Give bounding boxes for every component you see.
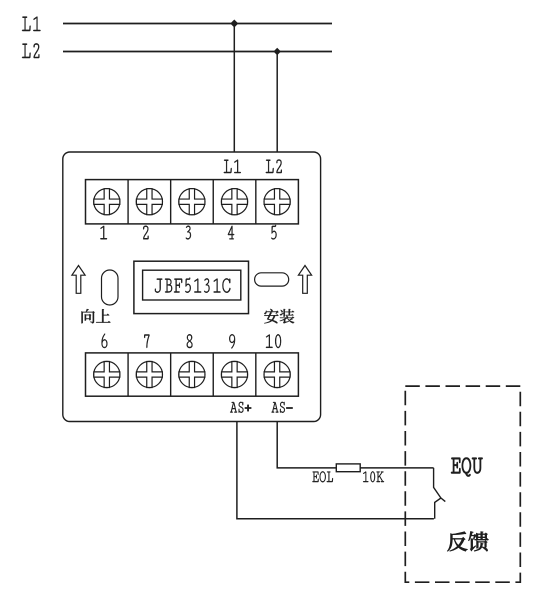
screw terminal 10 bbox=[264, 361, 290, 387]
junction on L1 bbox=[231, 20, 238, 27]
terminal number 3 bbox=[186, 226, 191, 240]
resistor EOL 10K bbox=[336, 464, 360, 472]
wire L1 drop to terminal 4 bbox=[233, 24, 235, 153]
terminal number 4 bbox=[228, 226, 234, 239]
net label L2 bbox=[22, 43, 39, 58]
screw terminal 5 bbox=[264, 189, 290, 215]
equipment EQU dashed box bbox=[405, 386, 520, 582]
label AS- at terminal 10 bbox=[272, 402, 293, 413]
terminal divider top 3 bbox=[212, 180, 214, 224]
terminal block bottom bbox=[86, 353, 299, 396]
mounting slot left bbox=[102, 270, 119, 305]
label L1 at terminal 4 bbox=[224, 160, 241, 173]
terminal number 2 bbox=[143, 226, 148, 240]
junction on L2 bbox=[274, 49, 280, 55]
screw terminal 1 bbox=[94, 189, 120, 215]
screw terminal 3 bbox=[179, 189, 205, 215]
label EOL bbox=[312, 471, 333, 482]
wire AS- to EOL resistor bbox=[277, 422, 336, 468]
terminal divider bottom 4 bbox=[255, 353, 257, 396]
wire L1 bus bbox=[63, 23, 332, 25]
wire AS+ to EQU bbox=[237, 422, 434, 519]
wire L2 bus bbox=[63, 51, 332, 53]
label AS+ at terminal 9 bbox=[230, 402, 251, 413]
terminal divider top 4 bbox=[255, 180, 257, 224]
terminal number 1 bbox=[100, 226, 107, 239]
orientation arrow left bbox=[72, 266, 85, 294]
screw terminal 8 bbox=[179, 361, 205, 387]
label L2 at terminal 5 bbox=[266, 160, 282, 174]
label 10K bbox=[363, 471, 384, 482]
label anzhuang bbox=[264, 309, 294, 324]
screw terminal 6 bbox=[94, 361, 120, 387]
module JBF5131C outline bbox=[63, 152, 321, 422]
terminal number 5 bbox=[271, 225, 276, 240]
orientation arrow right bbox=[298, 266, 311, 294]
label fankui bbox=[447, 532, 488, 552]
wire resistor to EQU bbox=[360, 467, 433, 469]
screw terminal 7 bbox=[136, 361, 162, 387]
device contact squiggle bbox=[434, 468, 446, 519]
terminal number 9 bbox=[229, 334, 235, 348]
terminal number 6 bbox=[102, 334, 108, 349]
terminal number 8 bbox=[187, 334, 193, 348]
wire L2 drop to terminal 5 bbox=[276, 52, 278, 153]
mounting slot right bbox=[255, 273, 289, 286]
terminal number 10 bbox=[266, 334, 281, 348]
terminal divider bottom 2 bbox=[170, 353, 172, 396]
net label L1 bbox=[22, 17, 40, 32]
screw terminal 2 bbox=[136, 189, 162, 215]
terminal divider top 1 bbox=[127, 180, 129, 224]
terminal divider top 2 bbox=[170, 180, 172, 224]
display window bbox=[143, 270, 241, 300]
terminal divider bottom 1 bbox=[127, 353, 129, 396]
display bezel bbox=[134, 261, 249, 313]
label EQU bbox=[451, 458, 482, 477]
model text JBF5131C bbox=[155, 278, 230, 293]
terminal divider bottom 3 bbox=[212, 353, 214, 396]
terminal block top bbox=[86, 180, 299, 224]
screw terminal 4 bbox=[221, 189, 247, 215]
label xiangshang bbox=[82, 309, 111, 323]
terminal number 7 bbox=[144, 335, 149, 348]
screw terminal 9 bbox=[221, 361, 247, 387]
